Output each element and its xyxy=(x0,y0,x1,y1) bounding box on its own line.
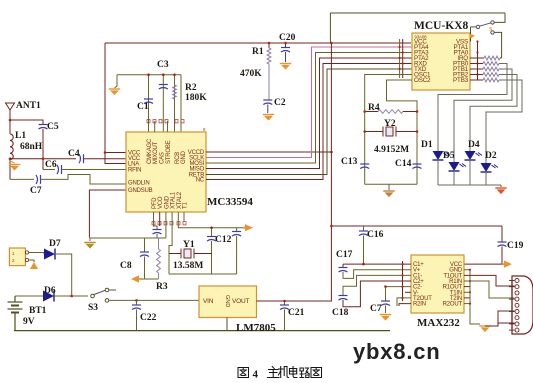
junction on MCU right column xyxy=(476,62,478,64)
wire D4 cathode to LED rail xyxy=(469,160,471,186)
wire T1 stub xyxy=(183,212,185,221)
junction Y2 left xyxy=(363,130,366,133)
capacitor on Y1 right leg xyxy=(207,237,216,242)
junction VCC1 branch xyxy=(104,151,107,154)
wire L1 bottom node down to C7 line xyxy=(9,160,11,180)
svg-text:D5: D5 xyxy=(443,151,455,161)
junction on MCU left column 2 xyxy=(402,62,404,64)
svg-text:VIN: VIN xyxy=(203,298,214,305)
svg-text:C7: C7 xyxy=(370,304,382,314)
junction tie column right of MAX232 xyxy=(469,291,471,293)
diode D6 xyxy=(43,291,54,302)
wire top bracket left vertical xyxy=(329,13,331,43)
wire +5V to C21 xyxy=(284,301,286,305)
wire battery to D6 anode xyxy=(15,295,43,297)
capacitor C7 xyxy=(36,175,41,184)
svg-text:R2IN: R2IN xyxy=(413,302,426,308)
junction C1 top xyxy=(147,73,150,76)
ground below C2 xyxy=(263,115,274,121)
caption glyph 路 xyxy=(300,368,310,378)
svg-text:BT1: BT1 xyxy=(29,306,47,316)
svg-text:ANT1: ANT1 xyxy=(16,101,41,111)
LED D1 xyxy=(433,151,451,160)
resistor on PTB2 to D4 xyxy=(483,73,499,77)
svg-text:180K: 180K xyxy=(185,93,207,103)
ground near C3 net xyxy=(109,89,120,95)
crystal Y2 xyxy=(365,127,417,137)
wire ground node to C7 xyxy=(10,178,34,180)
capacitor C14 xyxy=(413,164,422,169)
wire ground rail stub xyxy=(89,238,91,241)
connector J1 xyxy=(9,248,25,266)
svg-text:C7: C7 xyxy=(30,186,42,196)
wire C8 bottom join xyxy=(145,257,159,280)
wire PTB3 to D2 route xyxy=(486,80,522,163)
capacitor C19 xyxy=(498,242,507,247)
ground below DB9 wires xyxy=(479,326,490,332)
wire DB9 handshake loop xyxy=(498,311,515,323)
wire Y1 loop bottom xyxy=(169,273,237,275)
capacitor C2 xyxy=(263,100,272,105)
wire T2IN stub xyxy=(464,297,470,299)
wire Y2 bottom to ground xyxy=(388,184,390,190)
wire C1- to C18 top xyxy=(343,275,411,295)
wire OSC2 to Y2 right leg xyxy=(387,80,418,184)
svg-text:XTAL1: XTAL1 xyxy=(171,191,177,209)
caption glyph 电 xyxy=(290,367,297,378)
wire branch to VCC pin 1 xyxy=(105,152,126,154)
svg-text:R2OUT: R2OUT xyxy=(443,302,463,308)
svg-text:NC: NC xyxy=(196,178,205,184)
op-amp U1 MC33594 body xyxy=(126,132,206,212)
svg-text:C19: C19 xyxy=(507,241,524,251)
wire from top rail down to LNA pin xyxy=(105,43,126,164)
capacitor bypass under MC33594 xyxy=(153,230,162,235)
wire MOSI to PTA3 xyxy=(206,53,412,164)
power arrow +5V at MAX232 xyxy=(502,261,512,268)
LED D4 xyxy=(465,151,483,160)
svg-text:GND: GND xyxy=(164,195,170,209)
svg-text:C14: C14 xyxy=(395,159,412,169)
wire switch to IRQ net xyxy=(494,32,501,58)
capacitor C5 xyxy=(39,125,48,130)
caption 图4 主机电路图 xyxy=(238,367,322,381)
regulator U2 LM7805 body xyxy=(199,286,257,318)
wire MAX232 GND to DB9 ground xyxy=(464,270,480,324)
wire D7 cathode down to switch node xyxy=(55,254,72,296)
junction tie column MAX232 xyxy=(401,274,403,276)
wire LM7805 GND to rail xyxy=(226,318,228,331)
junction Y1 right on XTAL2 net xyxy=(210,226,213,229)
svg-text:CAS: CAS xyxy=(160,152,166,164)
connector J2 DB9 xyxy=(512,276,533,334)
wire RETB to TXD xyxy=(206,69,412,175)
wire ground rail under MC33594 xyxy=(89,237,166,239)
wire rail to R3 xyxy=(158,238,160,249)
wire connector pin2 to arrow xyxy=(29,260,34,262)
wire node to C6 xyxy=(43,169,55,171)
wire C6 to RFIN pin xyxy=(62,169,127,171)
caption glyph 图 (second) xyxy=(311,368,322,378)
wire Y1 right vertical xyxy=(211,241,213,274)
junction tie column MAX232 xyxy=(401,263,403,265)
MC33594 pin number marks bottom xyxy=(152,222,155,225)
battery BT1 xyxy=(8,296,23,331)
junction VCCD on +5V xyxy=(330,151,333,154)
wire PTB3 to D2 pin segment xyxy=(470,79,483,81)
junction C7 top xyxy=(384,285,387,288)
svg-text:C3: C3 xyxy=(157,60,169,70)
wire S3 to LM7805 VIN xyxy=(109,299,199,301)
wire VCO stub xyxy=(159,212,161,226)
wire PFD/VCO pins to bypass cap xyxy=(154,212,158,229)
junction on MCU left column xyxy=(399,68,401,70)
wire C3 column to CA pin xyxy=(162,75,164,132)
junction on MCU left column 2 xyxy=(402,51,404,53)
wire C22 to bottom rail xyxy=(136,310,138,331)
wire VOUT +5V vertical rail xyxy=(257,43,332,301)
svg-text:GNDLIN: GNDLIN xyxy=(128,181,149,187)
wire C7 to ground xyxy=(385,306,387,314)
svg-text:LM7805: LM7805 xyxy=(236,322,276,334)
svg-text:C21: C21 xyxy=(288,308,305,318)
caption glyph 机 xyxy=(278,367,288,378)
svg-text:D1: D1 xyxy=(421,140,433,150)
wire L1 node to C4 xyxy=(10,158,76,160)
junction C20 on VCC rail xyxy=(284,42,287,45)
wire rail to C8 xyxy=(144,238,146,252)
svg-text:MCU-KX8: MCU-KX8 xyxy=(414,20,469,32)
svg-text:MIXOUT: MIXOUT xyxy=(153,141,159,164)
svg-text:9V: 9V xyxy=(23,317,35,327)
junction +5V branch xyxy=(330,225,333,228)
capacitor C22 xyxy=(132,305,141,310)
wire R2 column to STROBE pin xyxy=(174,75,176,132)
svg-text:R2: R2 xyxy=(185,83,197,93)
capacitor C1 xyxy=(144,99,153,104)
driver U4 MAX232 body xyxy=(411,255,464,313)
wire C2 to ground xyxy=(267,105,269,114)
wire D1 cathode to LED rail xyxy=(437,160,439,186)
svg-text:MC33594: MC33594 xyxy=(207,196,253,208)
ground below C7 xyxy=(380,315,391,321)
antenna ANT1 xyxy=(6,103,15,120)
wire IRQ pin to pullup xyxy=(470,57,484,59)
resistor on PTB1 to D5 xyxy=(483,67,499,71)
svg-text:T1: T1 xyxy=(183,202,189,209)
wire antenna node to C5 xyxy=(10,120,43,125)
wire top bracket horizontal xyxy=(330,12,505,14)
wire C1 column to CMKAGC pin xyxy=(148,75,150,132)
wire C20 to ground xyxy=(285,52,287,62)
capacitor C4 xyxy=(79,154,84,163)
wire VCCD to +5V vertical xyxy=(206,151,331,153)
wire R3 bottom xyxy=(158,273,160,279)
junction on MCU right column xyxy=(476,40,478,42)
wire PTB0 to D1 pin segment xyxy=(470,63,483,65)
wire XTAL1 to Y1 left xyxy=(169,212,172,274)
capacitor C6 xyxy=(57,165,62,174)
power arrow right of C12 net xyxy=(243,224,253,231)
wire Y1 right vertical top xyxy=(211,228,213,237)
wire +5V down to C19 xyxy=(501,226,503,242)
svg-text:C16: C16 xyxy=(367,230,384,240)
wire to C22 xyxy=(136,300,138,305)
svg-text:4.9152M: 4.9152M xyxy=(374,145,409,155)
svg-text:C22: C22 xyxy=(140,313,157,323)
svg-text:STROBE: STROBE xyxy=(166,140,172,164)
svg-text:Y1: Y1 xyxy=(183,240,195,250)
wire LED cathode rail xyxy=(438,184,501,186)
svg-text:C1: C1 xyxy=(137,102,149,112)
wire MISO to PTA2 xyxy=(206,58,412,169)
LED D5 xyxy=(449,162,467,171)
wire SCLK to PTA4 xyxy=(206,47,412,158)
wire PTB2 to D4 pin segment xyxy=(470,74,483,76)
svg-text:GND: GND xyxy=(224,295,230,307)
junction R4 left xyxy=(363,110,366,113)
svg-text:D7: D7 xyxy=(49,239,61,249)
wire T1IN stub xyxy=(464,291,470,293)
ground below Y2 xyxy=(383,191,394,197)
junction R2 top xyxy=(173,73,176,76)
wire C1+ net xyxy=(343,263,411,265)
switch S1 top right xyxy=(471,21,495,34)
svg-text:R3: R3 xyxy=(156,282,168,292)
wire D6 cathode to S3 xyxy=(54,295,88,297)
wire R4 to right leg xyxy=(403,111,417,113)
capacitor C21 xyxy=(280,305,289,310)
junction D6/D7 xyxy=(70,295,73,298)
junction C5/C4 node xyxy=(42,157,45,160)
ground on rail xyxy=(84,243,95,249)
wire C12 down to Y1 bottom xyxy=(236,236,238,274)
capacitor C7 near MAX232 xyxy=(381,301,390,306)
junction C16 bottom xyxy=(362,263,365,266)
wire VCC top rail from antenna section to MCU VCC xyxy=(105,42,411,44)
wire T2OUT hook xyxy=(397,298,411,306)
ground below L1 xyxy=(9,165,20,171)
svg-text:4: 4 xyxy=(253,369,259,381)
ground below C20 xyxy=(280,64,291,70)
svg-text:GND: GND xyxy=(181,150,187,164)
power arrow below connector xyxy=(30,262,38,269)
wire XTAL2 to C12 net xyxy=(178,212,244,228)
svg-text:ybx8.cn: ybx8.cn xyxy=(353,339,441,364)
LED D2 xyxy=(481,163,499,172)
wire C2- to C7 xyxy=(386,286,412,288)
svg-text:PFD: PFD xyxy=(152,197,158,209)
wire right column to RCB/GND pin xyxy=(180,75,182,132)
wire +5V to C16 xyxy=(363,226,365,231)
caption glyph 主 xyxy=(268,367,280,378)
resistor R1 xyxy=(267,48,271,64)
wire to R4 xyxy=(365,111,378,113)
svg-text:MAX232: MAX232 xyxy=(417,317,460,329)
wire down to C7 xyxy=(385,287,387,301)
wire R2OUT stub xyxy=(464,303,470,305)
capacitor C3 xyxy=(159,85,168,90)
svg-text:C20: C20 xyxy=(279,33,296,43)
resistor on PTB0 to D1 xyxy=(483,62,499,66)
svg-text:RFIN: RFIN xyxy=(128,168,141,174)
svg-text:R1: R1 xyxy=(252,47,264,57)
wire column left of MCU xyxy=(399,39,401,78)
svg-text:C17: C17 xyxy=(336,250,353,260)
wire PTB1 to D5 pin segment xyxy=(470,68,483,70)
wire PTB2 to D4 route xyxy=(470,75,517,152)
wire C3 net to ground xyxy=(115,75,118,88)
junction on MCU right column xyxy=(476,51,478,53)
junction R4 right xyxy=(416,110,419,113)
resistor IRQ pullup xyxy=(484,56,500,60)
capacitor C13 xyxy=(360,164,369,169)
power arrow RF ground left xyxy=(131,275,141,282)
capacitor C8 xyxy=(140,252,149,257)
wire C16 to C1+ net xyxy=(363,236,365,265)
svg-text:D2: D2 xyxy=(485,151,497,161)
wire C17 bottom to V+ xyxy=(343,270,411,279)
svg-text:S3: S3 xyxy=(88,303,98,313)
capacitor C17 xyxy=(339,268,348,273)
svg-text:C6: C6 xyxy=(45,160,57,170)
wire C12 top stub xyxy=(236,228,238,232)
diode D7 xyxy=(44,249,55,260)
wire D2 cathode to LED rail xyxy=(485,172,487,186)
svg-text:C2: C2 xyxy=(274,98,286,108)
MC33594 pin number marks top xyxy=(147,120,150,123)
wire column 2 left of MCU xyxy=(402,39,404,78)
wire GND pin to ground rail xyxy=(165,212,167,238)
wire bypass cap to ground rail xyxy=(156,234,158,238)
wire switch to VSS xyxy=(470,27,472,42)
junction on MCU left column xyxy=(399,46,401,48)
svg-text:13.58M: 13.58M xyxy=(173,261,203,271)
wire NC row to RXD xyxy=(206,64,412,180)
junction on MCU right column xyxy=(476,73,478,75)
wire T1OUT to DB9 xyxy=(464,275,515,286)
junction tie column right of MAX232 xyxy=(469,280,471,282)
svg-text:470K: 470K xyxy=(240,69,262,79)
wire C21 to ground xyxy=(284,310,286,331)
capacitor C18 xyxy=(339,296,348,301)
svg-text:C5: C5 xyxy=(47,122,59,132)
wire top pin stub xyxy=(167,121,169,132)
junction tie column right of MAX232 xyxy=(469,269,471,271)
wire C19 to MAX232 VCC xyxy=(464,247,502,265)
svg-text:Y2: Y2 xyxy=(384,119,396,129)
svg-text:VOUT: VOUT xyxy=(232,298,249,305)
wire R1OUT stub xyxy=(464,286,470,288)
wire +5V branch to C19 xyxy=(331,225,502,227)
svg-text:68nH: 68nH xyxy=(20,142,43,152)
junction tie column right of MAX232 xyxy=(469,303,471,305)
wire rail to R1 xyxy=(268,43,270,48)
wire DB9 to ground xyxy=(485,323,498,326)
wire bottom ground rail xyxy=(14,330,390,332)
svg-text:CMKAGC: CMKAGC xyxy=(147,138,153,164)
svg-text:D4: D4 xyxy=(468,140,480,150)
wire rail to C20 xyxy=(285,43,287,48)
wire OSC1 to Y2 left leg xyxy=(365,75,412,185)
svg-text:C4: C4 xyxy=(68,149,80,159)
svg-text:L1: L1 xyxy=(15,131,26,141)
wire Y2 loop bottom xyxy=(365,183,417,185)
resistor on PTB3 to D2 xyxy=(483,78,499,82)
capacitor C12 xyxy=(232,232,241,237)
junction +5V at top rail xyxy=(330,42,333,45)
wire PTB1 to D5 route xyxy=(454,69,512,162)
wire to RF ground arrow xyxy=(140,278,145,280)
svg-text:C18: C18 xyxy=(332,308,349,318)
svg-text:D6: D6 xyxy=(44,286,56,296)
wire top pin stub xyxy=(154,121,156,132)
wire top bracket to switch xyxy=(494,13,505,22)
wire R2IN hook xyxy=(399,304,411,306)
inductor L1 xyxy=(10,134,13,160)
junction R1 on VCC rail xyxy=(268,42,271,45)
wire to C17 top xyxy=(342,264,344,267)
wire C18 bottom to C2+ xyxy=(343,281,411,307)
svg-text:GNDSUB: GNDSUB xyxy=(128,188,153,194)
svg-text:PTB3: PTB3 xyxy=(453,77,469,84)
junction antenna node xyxy=(9,119,12,122)
svg-text:C8: C8 xyxy=(120,261,132,271)
junction tie column MAX232 xyxy=(401,286,403,288)
svg-text:OSC2: OSC2 xyxy=(414,77,431,84)
wire V- stub xyxy=(405,291,411,293)
junction Y2 right xyxy=(416,130,419,133)
junction tie column MAX232 xyxy=(401,297,403,299)
junction C21 top xyxy=(283,300,286,303)
svg-text:C12: C12 xyxy=(215,235,232,245)
junction on MCU left column xyxy=(399,57,401,59)
wire GNDSUB pin to ground rail xyxy=(89,190,126,238)
wire R1IN to DB9 xyxy=(464,281,515,298)
junction C22 top xyxy=(135,299,138,302)
wire C4 to VCC pin 2 xyxy=(84,158,127,160)
junction C3 top xyxy=(162,73,165,76)
junction L1 bottom node xyxy=(9,157,12,160)
wire C5 bottom to C4/C6 node xyxy=(42,129,44,170)
wire connector pin1 to D7 xyxy=(29,253,44,255)
resistor R3 xyxy=(157,249,161,273)
switch S3 xyxy=(91,288,116,302)
svg-text:VCO: VCO xyxy=(158,196,164,209)
wire C7 to GNDLIN pin xyxy=(41,175,127,185)
capacitor C20 xyxy=(281,48,290,53)
wire stub to RF ground xyxy=(10,161,15,163)
crystal Y1 xyxy=(169,249,212,259)
resistor R2 xyxy=(173,85,177,99)
capacitor C16 xyxy=(359,231,368,236)
power arrow at MCU corner xyxy=(469,34,475,39)
wire pullup to switch net xyxy=(500,57,502,59)
MCU U3 MCU-KX8 body xyxy=(412,33,470,90)
svg-text:C13: C13 xyxy=(341,157,358,167)
wire LED rail to ground xyxy=(500,185,502,187)
DB9 pin stubs xyxy=(509,280,515,282)
wire antenna node to L1 xyxy=(9,120,11,134)
wire PTB0 to D1 route xyxy=(438,64,507,152)
wire C3/C1/R2 top net xyxy=(117,74,181,76)
wire tie column left of MAX232 xyxy=(402,261,404,301)
wire column right of MCU xyxy=(477,42,479,81)
wire D5 cathode to LED rail xyxy=(453,171,455,186)
resistor R4 xyxy=(378,110,403,114)
ground below LEDs xyxy=(495,188,506,194)
wire R1 to C2 xyxy=(268,64,270,100)
